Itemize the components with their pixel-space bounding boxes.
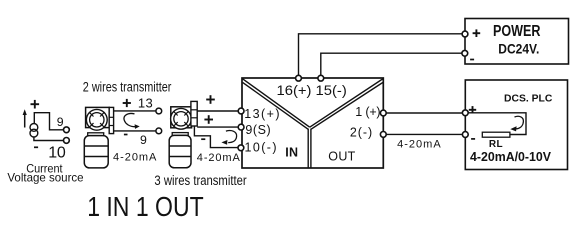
3 wires transmitter head — [171, 107, 192, 128]
3 wires transmitter terminal block — [191, 101, 197, 126]
current/voltage source wire bottom — [34, 137, 64, 141]
polarity plus 2wire — [123, 102, 131, 104]
2 wires transmitter terminal circle minus — [156, 128, 162, 134]
wire power minus — [321, 53, 465, 78]
POWER box U3 — [465, 19, 569, 65]
svg-text:2 wires transmitter: 2 wires transmitter — [83, 79, 172, 94]
terminal circle 9(S) — [238, 124, 244, 130]
svg-text:13(+): 13(+) — [244, 107, 279, 121]
svg-text:3 wires transmitter: 3 wires transmitter — [154, 173, 247, 188]
polarity minus power — [470, 59, 474, 61]
svg-text:Voltage source: Voltage source — [7, 171, 84, 185]
polarity plus source — [31, 103, 40, 105]
3 wires transmitter collar — [172, 133, 188, 136]
svg-text:2(-): 2(-) — [350, 126, 372, 140]
terminal circle power plus — [462, 31, 468, 37]
svg-text:9(S): 9(S) — [245, 123, 270, 137]
2 wires transmitter gauge outer circle — [86, 109, 107, 130]
3 wires transmitter wire to 9 — [197, 126, 241, 128]
svg-text:1 IN 1 OUT: 1 IN 1 OUT — [87, 191, 204, 221]
polarity minus source — [34, 146, 38, 148]
svg-text:IN: IN — [285, 145, 298, 159]
wire power plus — [299, 34, 466, 78]
isolator U1 outline — [242, 78, 383, 168]
svg-text:OUT: OUT — [328, 150, 355, 164]
svg-text:10: 10 — [48, 144, 66, 161]
svg-text:13: 13 — [138, 95, 153, 110]
current/voltage source wire top — [34, 113, 63, 130]
2 wires transmitter terminal block — [109, 107, 113, 133]
resistor RL — [482, 132, 510, 137]
2 wires transmitter wire minus — [114, 130, 156, 132]
2 wires transmitter gauge ticks — [89, 112, 104, 127]
2 wires transmitter terminal circle plus — [156, 108, 162, 114]
svg-text:4-20mA: 4-20mA — [113, 152, 157, 164]
terminal circle src 10 — [64, 138, 70, 144]
svg-text:4-20mA/0-10V: 4-20mA/0-10V — [470, 149, 551, 164]
isolator vertical divider left line — [307, 129, 309, 168]
terminal circle power minus — [462, 50, 468, 56]
current source circle upper — [30, 124, 38, 132]
isolator vertical divider right line — [310, 129, 312, 168]
2 wires transmitter gauge inner ring — [90, 113, 104, 127]
isolator V divider diagonal right inner — [311, 82, 383, 129]
svg-text:DCS. PLC: DCS. PLC — [504, 93, 553, 105]
3 wires transmitter wire to 10 — [194, 126, 241, 148]
isolator V divider diagonal left inner — [243, 82, 309, 129]
polarity minus 2wire — [124, 134, 128, 136]
svg-text:1 (+): 1 (+) — [355, 105, 380, 119]
3 wires transmitter gauge ticks — [173, 111, 188, 126]
isolator V divider diagonal right outer — [310, 79, 383, 127]
polarity minus dcs — [471, 138, 475, 140]
svg-text:9: 9 — [140, 133, 147, 147]
isolator V divider diagonal left outer — [243, 79, 310, 127]
DCS PLC box U4 — [465, 80, 567, 170]
svg-text:DC24V.: DC24V. — [498, 41, 539, 57]
svg-text:10(-): 10(-) — [245, 140, 277, 154]
3 wires transmitter gauge inner ring — [174, 112, 188, 126]
polarity plus power — [473, 32, 481, 34]
svg-text:4-20mA: 4-20mA — [197, 152, 241, 164]
wire out plus — [383, 112, 465, 114]
terminal circle 16(+) — [296, 75, 302, 81]
arrow current direction in DCS loop — [515, 116, 524, 129]
2 wires transmitter wire plus — [114, 110, 156, 112]
polarity plus dcs — [469, 109, 476, 111]
3 wires transmitter gauge outer circle — [171, 108, 192, 129]
terminal circle dcs minus — [462, 132, 468, 138]
3 wires transmitter wire to 13 — [197, 110, 241, 112]
current source circle lower — [30, 129, 38, 137]
polarity plus 3wire top — [206, 99, 215, 101]
2 wires transmitter body — [84, 136, 108, 168]
terminal circle 15(-) — [318, 75, 324, 81]
wire RL loop — [465, 113, 526, 135]
svg-text:9: 9 — [57, 115, 64, 129]
terminal circle 1(+) — [380, 110, 386, 116]
terminal circle src 9 — [64, 127, 70, 133]
terminal circle dcs plus — [462, 110, 468, 116]
terminal circle 10(-) — [238, 145, 244, 151]
terminal circle 13(+) — [238, 108, 244, 114]
wire out minus — [383, 133, 465, 135]
svg-text:4-20mA: 4-20mA — [397, 139, 441, 151]
polarity plus 3wire mid — [204, 119, 213, 121]
2 wires transmitter loop arrow — [124, 113, 136, 126]
terminal circle 2(-) — [380, 132, 386, 138]
3 wires transmitter loop arrow — [226, 131, 237, 143]
svg-text:POWER: POWER — [493, 23, 541, 40]
current source direction arrow — [24, 114, 26, 128]
polarity minus 3wire — [201, 138, 205, 140]
2 wires transmitter head — [86, 107, 110, 127]
2 wires transmitter collar — [88, 133, 104, 136]
svg-text:16(+) 15(-): 16(+) 15(-) — [277, 83, 347, 99]
3 wires transmitter body — [169, 135, 191, 167]
